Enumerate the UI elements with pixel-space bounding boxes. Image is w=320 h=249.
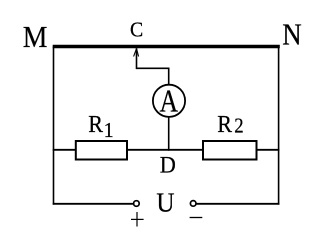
svg-text:N: N	[282, 18, 302, 52]
svg-text:U: U	[156, 187, 174, 217]
wire wiper to ammeter	[137, 68, 169, 84]
svg-text:A: A	[160, 84, 179, 119]
svg-text:M: M	[23, 21, 48, 55]
wire bottom right	[196, 203, 279, 205]
minus sign	[190, 217, 203, 219]
rheostat wiper arrow	[134, 48, 139, 69]
svg-text:C: C	[130, 19, 143, 42]
wire middle R1-D-R2	[53, 149, 280, 151]
ammeter A	[153, 85, 185, 117]
wire right branch N down	[278, 47, 280, 205]
terminal minus	[190, 201, 196, 207]
wire bottom left	[53, 203, 134, 205]
resistor R2	[203, 141, 257, 160]
wire left branch M down	[53, 47, 55, 205]
svg-text:R: R	[217, 111, 232, 138]
terminal plus	[134, 201, 140, 207]
svg-text:1: 1	[104, 119, 114, 142]
svg-text:2: 2	[234, 115, 243, 138]
rheostat bar M-N	[53, 45, 280, 49]
svg-text:R: R	[88, 111, 103, 138]
wire ammeter to node D	[168, 117, 170, 151]
resistor R1	[76, 141, 127, 160]
plus sign	[131, 212, 144, 227]
svg-text:D: D	[160, 152, 176, 178]
